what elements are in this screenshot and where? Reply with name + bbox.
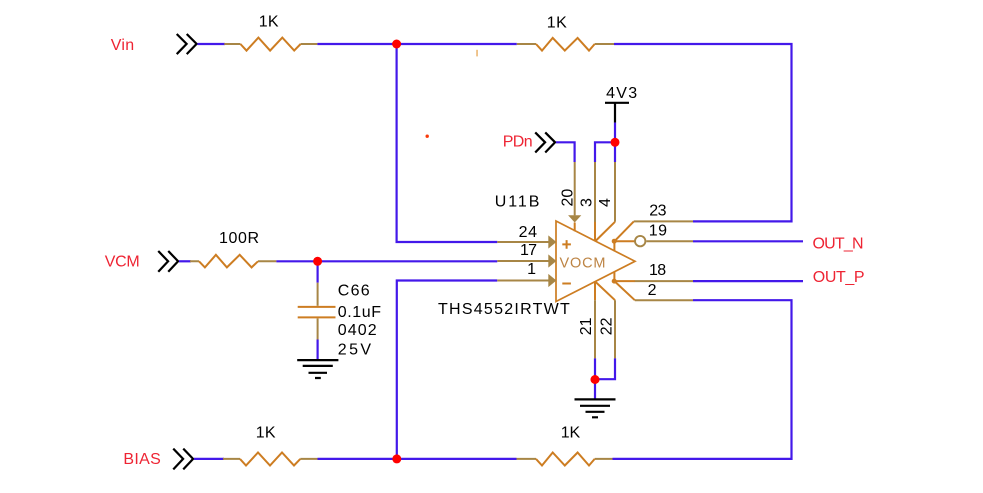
wire node C to pin 17 <box>318 260 498 262</box>
svg-text:4: 4 <box>597 198 614 207</box>
wire R3 to node D <box>318 458 397 460</box>
svg-text:PDn: PDn <box>503 133 533 150</box>
capacitor C66 <box>298 283 336 340</box>
svg-text:OUT_P: OUT_P <box>813 269 865 286</box>
svg-text:22: 22 <box>598 317 615 335</box>
value label 1K (R4) <box>561 425 581 442</box>
value label 1K (R2) <box>547 15 567 32</box>
wire VCM to R5 <box>179 260 191 262</box>
svg-text:100R: 100R <box>219 230 259 247</box>
svg-text:24: 24 <box>519 224 537 241</box>
wire pin 21 to node E <box>594 358 596 379</box>
designator U11B <box>495 194 540 211</box>
wire node D up to pin 1 <box>397 281 498 459</box>
pin 23 <box>634 220 693 222</box>
pin 20 <box>568 162 581 231</box>
svg-text:THS4552IRTWT: THS4552IRTWT <box>438 301 570 318</box>
resistor R5 100R <box>190 255 276 268</box>
pin number 3 <box>578 198 595 207</box>
junction node B <box>611 138 620 147</box>
pin number 2 <box>648 282 657 299</box>
svg-text:1K: 1K <box>256 424 276 441</box>
pin 17 <box>497 254 556 267</box>
svg-text:U11B: U11B <box>495 194 540 211</box>
svg-text:1K: 1K <box>561 425 581 442</box>
port Vin <box>178 35 197 54</box>
pin number 21 <box>578 317 595 335</box>
stray tan tick <box>476 50 478 57</box>
pin 1 <box>497 274 556 287</box>
svg-text:VOCM: VOCM <box>560 255 606 271</box>
port VCM <box>159 252 178 271</box>
wire pin 18 to OUT_P <box>693 280 803 282</box>
resistor R1 <box>224 38 317 51</box>
op-amp plus sign <box>562 240 571 249</box>
node VCM label <box>105 253 140 270</box>
wire C66 to ground <box>317 340 319 360</box>
pin 19 <box>646 240 693 242</box>
svg-text:1K: 1K <box>547 15 567 32</box>
wire pin 19 to OUT_N <box>693 240 803 242</box>
wire node A to R2 <box>397 43 517 45</box>
node PDn label <box>503 133 533 150</box>
wire R1 to node A <box>317 43 396 45</box>
stray red mark <box>426 135 429 138</box>
port PDn <box>536 133 555 152</box>
pin number 4 <box>597 198 614 207</box>
value label 1K (R1) <box>259 14 279 31</box>
wire R5 to node C <box>276 260 317 262</box>
svg-text:Vin: Vin <box>111 37 135 54</box>
svg-text:20: 20 <box>560 189 577 207</box>
output junction dot upper <box>612 239 617 244</box>
node Vin label <box>111 37 135 54</box>
op-amp U11B triangle <box>556 221 635 302</box>
pin 21 <box>594 281 596 358</box>
pin 4 <box>596 162 616 241</box>
wire BIAS to R3 <box>194 458 224 460</box>
output junction dot lower <box>612 279 617 284</box>
pin number 23 <box>649 203 666 220</box>
wire node E to ground <box>594 380 596 400</box>
svg-text:C66: C66 <box>338 283 370 300</box>
junction node E <box>591 375 600 384</box>
wire node B to pin 4 <box>614 142 616 162</box>
output riser pin 19/23 <box>614 221 635 251</box>
junction node A <box>392 40 401 49</box>
wire pin 22 to node E <box>595 358 615 379</box>
svg-text:BIAS: BIAS <box>123 451 160 468</box>
wire Vin to R1 <box>198 43 226 45</box>
svg-text:1: 1 <box>527 261 536 278</box>
svg-text:VCM: VCM <box>105 253 140 270</box>
pin number 24 <box>519 224 537 241</box>
pin 24 <box>497 235 556 248</box>
pin 3 <box>594 162 596 241</box>
value label 1K (R3) <box>256 424 276 441</box>
power 4V3 label <box>606 85 637 102</box>
wire R4 to right corner up to pin 2 <box>613 300 792 459</box>
pin 2 <box>635 299 693 301</box>
junction node D <box>392 454 401 463</box>
svg-text:OUT_N: OUT_N <box>813 235 864 252</box>
wire node B to pin 3 <box>595 142 615 162</box>
resistor R4 <box>517 453 613 466</box>
op-amp minus sign <box>562 283 571 285</box>
pin 22 <box>595 281 615 358</box>
wire PDn to pin 20 <box>556 142 575 162</box>
svg-text:19: 19 <box>649 222 667 239</box>
junction node C <box>313 257 322 266</box>
svg-text:4V3: 4V3 <box>606 85 637 102</box>
value label C66 <box>338 283 370 300</box>
pin number 18 <box>649 262 666 279</box>
pin number 1 <box>527 261 536 278</box>
svg-text:25V: 25V <box>338 342 372 359</box>
svg-text:1K: 1K <box>259 14 279 31</box>
ground (C66) <box>297 360 338 378</box>
pin 18 <box>635 280 693 282</box>
value label 0.1uF <box>338 304 381 321</box>
wire R2 to right corner down to pin 23 <box>614 44 792 221</box>
svg-text:21: 21 <box>578 317 595 335</box>
node BIAS label <box>123 451 160 468</box>
pin number 19 <box>649 222 667 239</box>
svg-text:2: 2 <box>648 282 657 299</box>
port BIAS <box>174 449 193 468</box>
resistor R2 <box>517 38 614 51</box>
wire 4V3 to node B <box>614 123 616 143</box>
node OUT_P label <box>813 269 865 286</box>
power bar 4V3 <box>605 103 629 123</box>
svg-text:17: 17 <box>520 242 537 259</box>
svg-text:23: 23 <box>649 203 666 220</box>
value label 100R <box>219 230 259 247</box>
wire node A down to pin24 <box>397 44 498 242</box>
value label 25V <box>338 342 372 359</box>
op-amp VOCM text <box>560 255 606 271</box>
wire node D to R4 <box>397 458 517 460</box>
ground (op-amp) <box>575 399 616 417</box>
node OUT_N label <box>813 235 864 252</box>
pin number 17 <box>520 242 537 259</box>
svg-text:18: 18 <box>649 262 666 279</box>
part THS4552IRTWT <box>438 301 570 318</box>
wire node C down to C66 <box>317 261 319 282</box>
svg-text:0402: 0402 <box>338 322 377 339</box>
output riser pin 18/2 <box>614 272 635 301</box>
value label 0402 <box>338 322 377 339</box>
pin number 20 <box>560 189 577 207</box>
svg-text:3: 3 <box>578 198 595 207</box>
resistor R3 <box>223 453 318 466</box>
svg-text:0.1uF: 0.1uF <box>338 304 381 321</box>
pin number 22 <box>598 317 615 335</box>
inverting bubble pin 19 <box>635 236 645 246</box>
